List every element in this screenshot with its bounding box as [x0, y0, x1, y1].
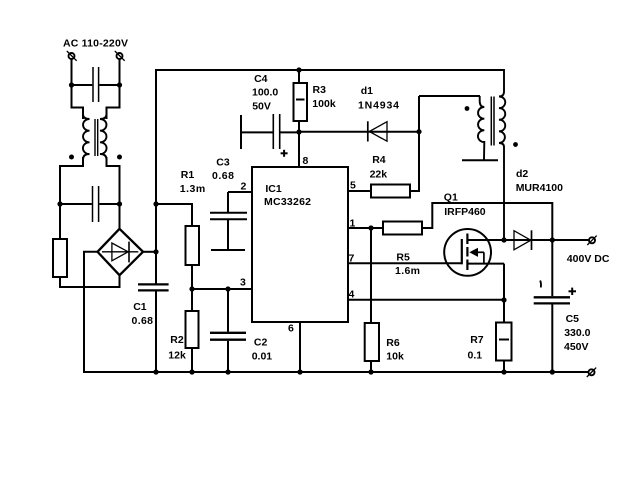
fuse F1 (box in AC line) [53, 239, 67, 277]
transformer T1 core [491, 97, 494, 146]
wire: pin 4 current sense [348, 299, 504, 301]
capacitor C3 (pin 2 compensation) [210, 192, 252, 250]
wire: bridge bottom vertex stub [119, 275, 121, 288]
svg-text:1.3m: 1.3m [180, 183, 205, 195]
wire: pin 6 ground [299, 322, 301, 372]
node: C2 top junction [225, 286, 230, 291]
resistor R5 (feedback divider top, on pin 1) [348, 203, 552, 240]
bridge rectifier B1 inner diode [102, 242, 138, 263]
ground (aux winding return) [462, 159, 498, 161]
svg-text:R5: R5 [396, 252, 410, 264]
node: C1 on ground rail [153, 369, 158, 374]
svg-text:C5: C5 [566, 313, 580, 325]
svg-text:6: 6 [288, 323, 294, 335]
svg-text:0.68: 0.68 [212, 170, 234, 182]
svg-text:5: 5 [350, 180, 356, 192]
svg-text:R1: R1 [181, 169, 195, 181]
svg-text:C1: C1 [133, 301, 147, 313]
svg-text:330.0: 330.0 [564, 327, 590, 339]
svg-text:3: 3 [240, 277, 246, 289]
wire: output 400V [552, 239, 588, 241]
inductor L1 core lines [95, 119, 98, 156]
bridge rectifier B1 diamond [98, 229, 144, 275]
phase dot, primary winding [513, 142, 518, 147]
svg-text:100k: 100k [312, 98, 336, 110]
node: CX2 right junction [117, 201, 122, 206]
capacitor C1 [138, 252, 169, 372]
svg-text:R4: R4 [372, 154, 386, 166]
wire: bridge minus (left vertex) down to ground rail [84, 252, 98, 373]
node: R2 on ground rail [189, 369, 194, 374]
capacitor CX2 (X-cap across line, lower) [60, 186, 120, 222]
diode d1 1N4934 [299, 121, 419, 141]
wire: top rail to transformer [155, 69, 504, 71]
svg-text:d1: d1 [361, 85, 373, 97]
wire: pin 8 from VCC node [298, 132, 300, 167]
transformer T1 primary (boost inductor) [499, 69, 505, 240]
svg-text:AC 110-220V: AC 110-220V [63, 38, 128, 50]
node: R3 top junction [296, 67, 301, 72]
svg-text:C2: C2 [254, 337, 268, 349]
wire: pin 3 net [192, 288, 252, 290]
svg-text:R2: R2 [170, 334, 184, 346]
resistor R2 [186, 289, 199, 372]
svg-text:4: 4 [349, 289, 355, 301]
svg-text:8: 8 [303, 155, 309, 167]
svg-text:1: 1 [350, 218, 356, 230]
resistor R7 [496, 300, 512, 372]
svg-text:d2: d2 [516, 168, 528, 180]
node: source/pin4/R7 junction [501, 297, 506, 302]
wire: bridge plus (right vertex) to DC rail [143, 251, 156, 253]
node: R1 tap on DC rail [153, 201, 158, 206]
phase dot, aux winding [465, 106, 470, 111]
node: pin6 on ground rail [297, 369, 302, 374]
node: C2 on ground rail [225, 369, 230, 374]
wire: J2 down to choke right, with inward step [107, 59, 120, 119]
phase dot, choke right [117, 155, 122, 160]
node: R3/C4/d1/pin8 junction [296, 129, 301, 134]
wire: pin 7 gate drive [348, 262, 462, 264]
svg-text:IRFP460: IRFP460 [444, 206, 486, 218]
terminal output - [587, 368, 596, 377]
resistor R3 [294, 70, 308, 133]
inductor L1 common-mode choke, left winding [83, 114, 90, 160]
svg-text:1.6m: 1.6m [395, 265, 420, 277]
wire: choke right down to bridge top vertex [107, 157, 120, 229]
svg-text:1N4934: 1N4934 [358, 100, 399, 112]
node: CX2 left junction [57, 201, 62, 206]
node: R6 on ground rail [368, 369, 373, 374]
wire: DC rail up the left side [155, 69, 157, 252]
svg-text:450V: 450V [564, 341, 589, 353]
terminal output + [587, 236, 596, 245]
resistor R4 [348, 185, 410, 198]
node: pin1/R6 junction [368, 225, 373, 230]
wire: aux winding link (up to winding, down to R4) [410, 96, 480, 191]
svg-text:2: 2 [241, 181, 247, 193]
svg-text:12k: 12k [168, 350, 186, 362]
capacitor CX1 (X-cap across line, top) [72, 67, 120, 102]
capacitor C4 (VCC electrolytic) [241, 114, 299, 157]
wire: J1 down to choke left, with inward step [72, 59, 84, 119]
op IC1 MC33262 box [252, 167, 348, 322]
node: CX1 left junction [69, 82, 74, 87]
node: bridge plus junction [153, 249, 158, 254]
svg-text:IC1: IC1 [265, 183, 282, 195]
svg-text:Q1: Q1 [444, 192, 458, 204]
svg-text:MC33262: MC33262 [264, 196, 311, 208]
terminal J2 (AC line 2) [115, 51, 125, 61]
capacitor C2 [210, 289, 246, 372]
svg-text:0.01: 0.01 [252, 351, 273, 363]
svg-text:C3: C3 [216, 157, 230, 169]
svg-text:0.1: 0.1 [468, 350, 483, 362]
svg-text:0.68: 0.68 [132, 315, 154, 327]
svg-text:C4: C4 [254, 73, 268, 85]
svg-text:10k: 10k [386, 351, 404, 363]
diode d2 MUR4100 [504, 230, 552, 250]
node: drain/d2 junction [501, 237, 506, 242]
node: R7 on ground rail [501, 369, 506, 374]
svg-text:50V: 50V [252, 100, 271, 112]
svg-text:R3: R3 [313, 84, 327, 96]
wire: ground rail [84, 371, 588, 373]
node: CX1 right junction [117, 82, 122, 87]
svg-text:MUR4100: MUR4100 [516, 182, 563, 194]
svg-text:R7: R7 [470, 334, 484, 346]
svg-text:100.0: 100.0 [252, 87, 278, 99]
resistor R6 (feedback divider bottom) [365, 228, 379, 372]
svg-text:R6: R6 [386, 337, 400, 349]
svg-text:7: 7 [349, 253, 355, 265]
resistor R1 [156, 204, 199, 289]
transformer T1 aux winding [478, 96, 484, 160]
svg-text:22k: 22k [370, 169, 388, 181]
wire: choke left down and out to fuse branch [60, 157, 83, 240]
node: R1/R2 junction [189, 286, 194, 291]
wire: fuse bottom to bridge bottom vertex [60, 277, 120, 287]
capacitor C5 (output electrolytic) [534, 240, 576, 372]
node: d1/R4/aux junction [416, 129, 421, 134]
node: C5 on ground rail [550, 369, 555, 374]
inductor L1 common-mode choke, right winding [100, 114, 107, 160]
terminal J1 (AC line 1) [67, 51, 77, 61]
phase dot, choke left [69, 155, 74, 160]
svg-text:400V DC: 400V DC [567, 253, 610, 265]
transistor Q1 IRFP460 [444, 229, 504, 300]
node: d2 cathode / C5 junction [550, 237, 555, 242]
